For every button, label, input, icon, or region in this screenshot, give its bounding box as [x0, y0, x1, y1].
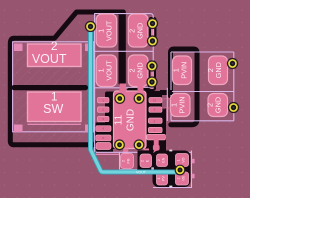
svg-text:SW: SW [43, 102, 63, 116]
via V9 EP [134, 94, 144, 104]
svg-text:PVIN: PVIN [178, 96, 187, 113]
IC U1 body black regions [96, 88, 172, 153]
trace cap B pad2 stub [138, 85, 144, 92]
svg-text:VOUT: VOUT [105, 60, 114, 81]
trace EP top stub [120, 84, 127, 93]
capacitor C3/C4 courtyard (right) [171, 52, 234, 121]
IC U1 exposed pad 11 GND [113, 91, 146, 149]
svg-text:VOUT: VOUT [105, 20, 114, 41]
trace EP bottom-left stub [123, 149, 128, 156]
via V10 EP [115, 140, 125, 150]
svg-text:GND: GND [126, 109, 137, 131]
silk line under IC left [95, 153, 120, 155]
L1 pad 2 VOUT [28, 39, 82, 66]
svg-text:GND: GND [214, 97, 223, 113]
via V2 [148, 19, 158, 29]
svg-text:VO: VO [182, 157, 186, 162]
zone bar between capacitor pads [119, 10, 126, 86]
via V1 [86, 22, 96, 32]
via V4 [147, 61, 157, 71]
svg-text:PVIN: PVIN [164, 107, 173, 111]
block silk ticks [169, 150, 172, 152]
net label PVIN texts [164, 98, 173, 111]
capacitor C2 pad 2 GND [127, 55, 148, 87]
zone bar behind vias V2 V3 [149, 17, 157, 47]
zone split band between L1 pads [12, 85, 89, 90]
block courtyard [153, 151, 192, 188]
trace EP bottom-right stub [144, 149, 150, 156]
svg-text:VB: VB [182, 176, 186, 181]
trace between vias V2 V3 [151, 18, 154, 45]
L1 pad 1 SW [28, 90, 82, 122]
resistor pair zone block (bottom right) [153, 151, 191, 188]
copper zone VOUT hatch fill [11, 40, 88, 144]
resistor R1 pad 1 [121, 154, 134, 169]
svg-text:GND: GND [135, 62, 144, 78]
svg-text:VOUT: VOUT [136, 171, 147, 175]
capacitor C2 pad 1 VOUT [96, 55, 116, 87]
via V6 [228, 59, 238, 69]
zone bar behind vias V4 V5 [148, 61, 156, 92]
zone GND right outline (thick black) [171, 49, 198, 125]
board background [0, 0, 250, 198]
trace between vias V4 V5 [151, 62, 154, 89]
svg-text:PVIN: PVIN [164, 98, 173, 102]
trace right junction + stub down [154, 139, 159, 157]
courtyard line bottom row [96, 151, 192, 153]
svg-text:PV: PV [162, 176, 166, 181]
IC U1 left pad row [96, 98, 111, 150]
svg-text:11: 11 [113, 114, 124, 125]
resistor R2 pad 2 [157, 172, 168, 185]
resistor R1 courtyard [120, 152, 138, 169]
capacitor C4 pad 1 PVIN [170, 94, 191, 117]
IC U1 courtyard right edge [166, 88, 168, 121]
via V7 [229, 103, 239, 113]
via V5 [147, 77, 157, 87]
svg-text:1: 1 [157, 178, 161, 180]
inductor L1 courtyard [13, 42, 94, 132]
svg-text:PVIN: PVIN [180, 62, 189, 79]
svg-text:E: E [145, 159, 150, 162]
zone VOUT outline (thick black) [10, 12, 119, 145]
svg-text:GND: GND [135, 23, 144, 39]
capacitor C3 pad 1 PVIN [172, 56, 192, 85]
via V12 [175, 165, 185, 175]
resistor R1 pad 2 on zone patch [138, 150, 154, 169]
svg-text:VOUT: VOUT [32, 52, 67, 66]
svg-text:2: 2 [157, 159, 161, 161]
L1 silk line bottom [28, 123, 82, 125]
via V11 EP [134, 140, 144, 150]
capacitor C1 pad 1 VOUT [96, 14, 116, 47]
IC U1 right pad row [147, 98, 166, 140]
svg-text:2: 2 [177, 178, 181, 180]
svg-text:10: 10 [153, 98, 157, 102]
capacitor C1 pad 2 GND [127, 14, 148, 47]
resistor R3 pad 1 [176, 154, 189, 167]
via V8 EP [115, 94, 125, 104]
via V3 [148, 36, 158, 46]
svg-text:FB: FB [126, 158, 131, 163]
svg-text:1: 1 [177, 159, 181, 161]
svg-text:EN: EN [162, 157, 166, 162]
grid dots [0, 0, 250, 198]
L1 silkscreen corner marks [14, 44, 23, 52]
capacitor C4 pad 2 GND [206, 94, 228, 117]
resistor R2 pad 1 [157, 154, 168, 167]
capacitor C3 pad 2 GND [206, 56, 228, 85]
resistor R3 pad 2 [176, 172, 189, 185]
capacitor C1 courtyard (top) [95, 14, 154, 153]
trace bottom cyan (B.Cu) [91, 26, 180, 172]
svg-text:GND: GND [214, 62, 223, 78]
